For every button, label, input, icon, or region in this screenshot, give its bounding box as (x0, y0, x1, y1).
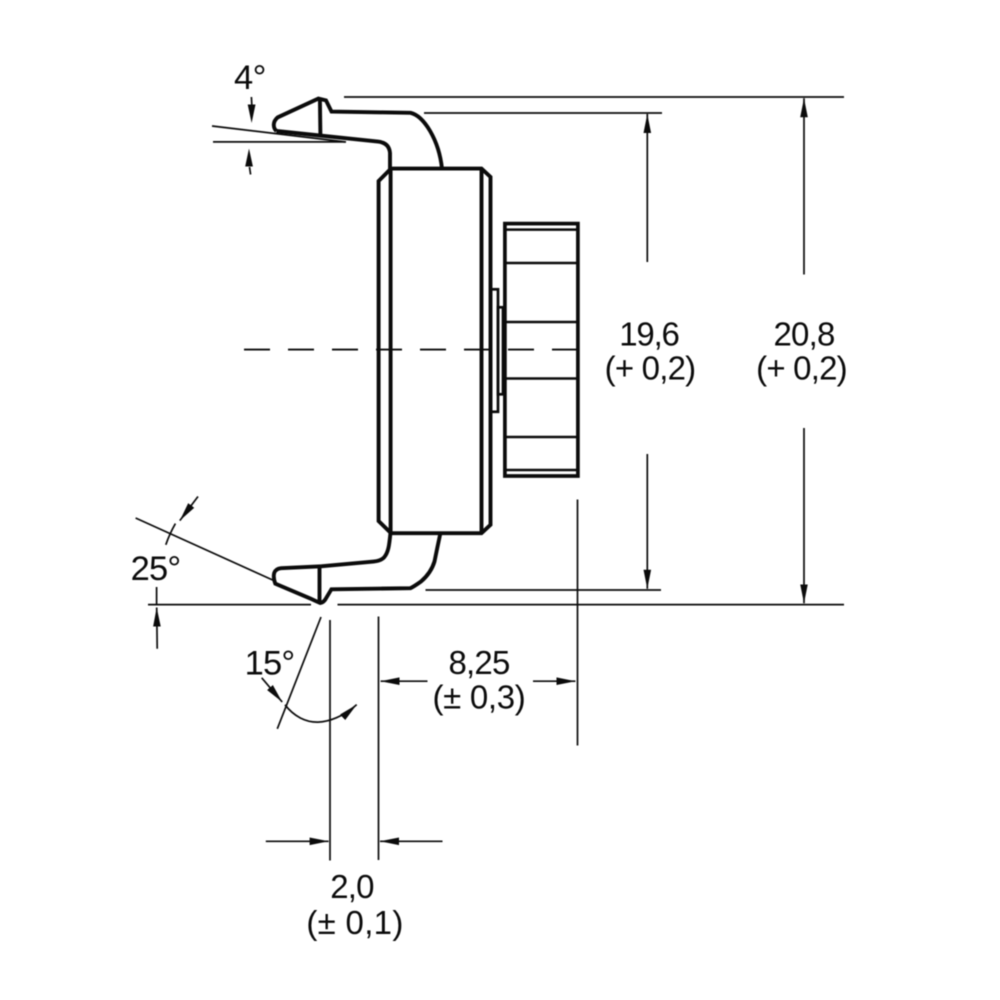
svg-text:(+ 0,2): (+ 0,2) (756, 350, 847, 387)
4 deg upper leader dash (250, 97, 252, 105)
bottom barb crease line (318, 567, 322, 602)
25 deg arc tick (166, 524, 176, 545)
15 deg leader arrow (262, 678, 283, 702)
ribbed boss outline (505, 224, 578, 476)
2,0 left arrow pointing right (266, 840, 329, 842)
25 deg slanted line (136, 518, 274, 581)
rib line 1 (505, 228, 578, 231)
19,6 dimension line lower segment with down arrow (646, 454, 648, 589)
15 deg arc with end arrow (285, 705, 357, 723)
rib line 4 (505, 377, 578, 380)
25 deg slant leader arrow (180, 497, 198, 521)
body inner left vertical edge (389, 169, 393, 534)
bottom arm underside extension line (426, 589, 662, 591)
bottom ground line (right of barb tip) (338, 604, 845, 606)
svg-text:20,8: 20,8 (773, 316, 834, 353)
2,0 extension line left (x=330) (329, 620, 331, 861)
dashed centerline (244, 349, 578, 351)
svg-text:25°: 25° (131, 550, 181, 588)
svg-text:15°: 15° (245, 645, 295, 683)
4 deg up arrow (245, 149, 253, 167)
svg-text:19,6: 19,6 (619, 316, 678, 353)
top extension line (barb peak level) (344, 96, 844, 98)
20,8 dimension line upper segment with up arrow (803, 98, 805, 274)
svg-text:2,0: 2,0 (330, 868, 374, 905)
8,25 right arrow (533, 680, 575, 682)
small tab inner step (498, 307, 503, 394)
svg-text:(± 0,3): (± 0,3) (432, 679, 525, 716)
rib line 2 (505, 262, 578, 265)
top arm barb and upper S-curve edge (274, 99, 442, 169)
8,25 extension line left (x=378.5) (378, 617, 380, 861)
body inner right vertical edge (480, 169, 484, 534)
rib line 6 (505, 469, 578, 472)
rib line 3 (505, 321, 578, 324)
20,8 dimension line lower segment with down arrow (803, 428, 805, 603)
bottom ground line (left of barb tip) (148, 604, 311, 606)
bottom arm barb and lower S-curve edge (274, 534, 441, 603)
25 deg up arrow at ground line (156, 608, 159, 649)
svg-text:4°: 4° (234, 59, 266, 97)
4 deg horizontal line (213, 141, 345, 143)
4 deg slanted line (212, 126, 346, 142)
4 deg lower leader dash (250, 167, 251, 175)
top barb crease line (318, 99, 322, 136)
body octagon outline (379, 169, 491, 534)
svg-text:(+ 0,2): (+ 0,2) (605, 350, 696, 387)
rib line 5 (505, 436, 578, 439)
svg-text:(± 0,1): (± 0,1) (306, 904, 403, 941)
svg-text:8,25: 8,25 (448, 644, 509, 681)
19,6 dimension line upper segment with up arrow (646, 114, 648, 262)
8,25 extension line right (x=577.5) (577, 500, 579, 746)
small tab outer step (491, 289, 498, 412)
top arm underside and left edge (276, 131, 390, 169)
15 deg slanted line (277, 617, 321, 729)
2,0 right arrow pointing left (380, 840, 443, 842)
4 deg down arrow (248, 105, 256, 124)
25 deg vertical leader upper segment (156, 587, 158, 606)
top arm upper-edge extension line (424, 112, 662, 114)
bottom arm left edge (321, 533, 390, 566)
8,25 left arrow (381, 680, 428, 682)
